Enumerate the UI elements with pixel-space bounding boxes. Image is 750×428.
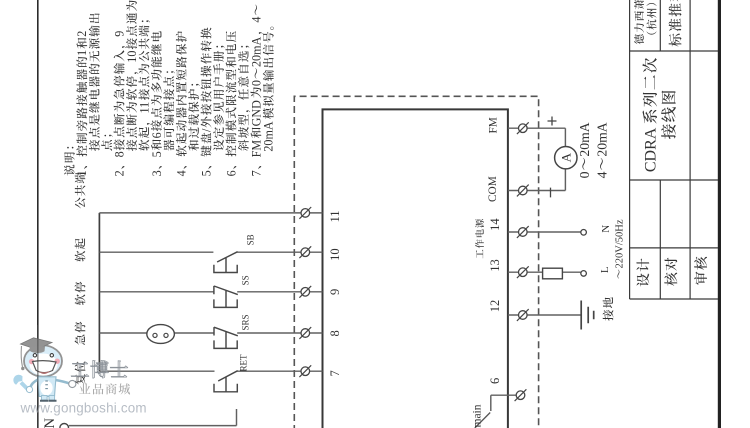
svg-text:4: 4 [175,170,189,176]
svg-text:SB: SB [246,234,256,245]
svg-text:0: 0 [249,80,263,86]
svg-text:3: 3 [150,170,164,176]
svg-text:2: 2 [75,31,89,37]
svg-text:20mA: 20mA [595,122,610,156]
svg-text:CDRA: CDRA [643,127,660,172]
svg-text:10: 10 [328,248,342,261]
svg-text:14: 14 [488,218,502,231]
svg-text:SS: SS [240,275,250,285]
svg-text:8: 8 [328,330,342,336]
svg-text:6: 6 [224,170,238,176]
svg-text:12: 12 [488,300,502,313]
svg-text:A: A [558,152,573,162]
svg-text:11: 11 [328,210,342,222]
svg-text:COM: COM [487,176,499,202]
svg-text:220V/50Hz: 220V/50Hz [614,219,625,268]
svg-text:L: L [599,266,611,273]
svg-text:N: N [600,225,612,233]
svg-text:7: 7 [249,170,263,176]
svg-text:5: 5 [200,170,214,176]
svg-text:20mA: 20mA [249,36,263,67]
svg-text:6: 6 [150,132,164,138]
svg-text:6: 6 [488,378,502,384]
svg-text:9: 9 [328,289,342,295]
svg-text:1: 1 [75,50,89,56]
svg-text:20mA: 20mA [262,121,276,152]
svg-text:20mA: 20mA [577,122,592,156]
svg-text:0: 0 [577,171,592,178]
svg-text:7: 7 [328,370,342,376]
svg-text:N: N [42,418,58,428]
svg-text:8: 8 [113,151,127,157]
svg-text:main: main [472,404,484,427]
svg-text:SRS: SRS [240,314,250,330]
svg-text:4: 4 [595,171,610,178]
svg-text:5: 5 [150,151,164,157]
svg-text:11: 11 [137,102,151,114]
svg-text:13: 13 [488,259,502,272]
svg-text:4: 4 [249,17,263,23]
svg-text:2: 2 [113,170,127,176]
svg-text:9: 9 [113,31,127,37]
svg-text:RET: RET [239,354,249,372]
svg-text:10: 10 [125,51,139,63]
svg-text:FM: FM [487,117,499,133]
